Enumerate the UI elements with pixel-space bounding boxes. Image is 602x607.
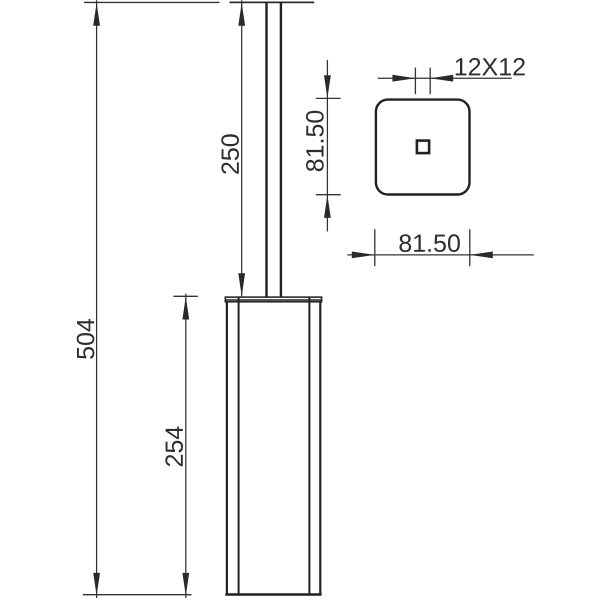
- bottom 81.50 dimension line: [347, 254, 533, 256]
- dimension 250 line: [241, 0, 243, 296]
- 12x12 left extension line: [414, 68, 416, 95]
- top extension line left segment: [84, 1, 220, 3]
- body outer right wall: [319, 302, 321, 595]
- left 81.50 bottom tick: [316, 194, 341, 196]
- left 81.50 bottom arrow: [324, 195, 331, 218]
- dimension 254 line: [185, 294, 187, 598]
- 12x12 dimension line: [378, 77, 512, 79]
- label 12X12: [456, 58, 525, 76]
- dimension 504 top arrow: [93, 3, 100, 26]
- dimension 504 bottom arrow: [93, 573, 100, 596]
- left 81.50 top arrow: [324, 75, 331, 98]
- top view rounded square body: [376, 100, 470, 195]
- brush rod left edge: [265, 2, 267, 297]
- left 81.50 dimension line: [326, 60, 328, 232]
- body bottom edge: [225, 593, 321, 595]
- bottom 81.50 label: [399, 234, 460, 252]
- 12x12 right arrow: [430, 75, 453, 82]
- bottom extension line: [83, 594, 192, 596]
- bottom 81.50 right arrow: [470, 252, 493, 259]
- lid middle line: [225, 299, 321, 301]
- 12x12 left arrow: [392, 75, 415, 82]
- top extension line right segment over rod: [230, 1, 315, 3]
- bottom 81.50 right extension line: [469, 229, 471, 266]
- brush rod right edge: [280, 2, 282, 297]
- container lid: [225, 297, 321, 302]
- dimension 504 label: [77, 319, 95, 359]
- body outer left wall: [226, 302, 228, 595]
- dimension 250 top arrow: [238, 3, 245, 26]
- body inner right wall: [308, 297, 310, 595]
- dimension 254 top tick: [173, 295, 197, 297]
- dimension 250 label: [221, 134, 239, 174]
- bottom 81.50 left extension line: [374, 229, 376, 266]
- top view center square hole: [417, 141, 429, 154]
- left 81.50 label: [306, 111, 324, 172]
- body inner left wall: [238, 297, 240, 595]
- left 81.50 top tick: [316, 97, 341, 99]
- dimension 250 bottom arrow: [238, 273, 245, 296]
- bottom 81.50 left arrow: [352, 252, 375, 259]
- 12x12 right extension line: [429, 68, 431, 95]
- dimension 254 bottom arrow: [182, 573, 189, 596]
- dimension 504 line: [96, 0, 98, 598]
- dimension 254 top arrow: [182, 297, 189, 320]
- dimension 254 label: [165, 427, 183, 467]
